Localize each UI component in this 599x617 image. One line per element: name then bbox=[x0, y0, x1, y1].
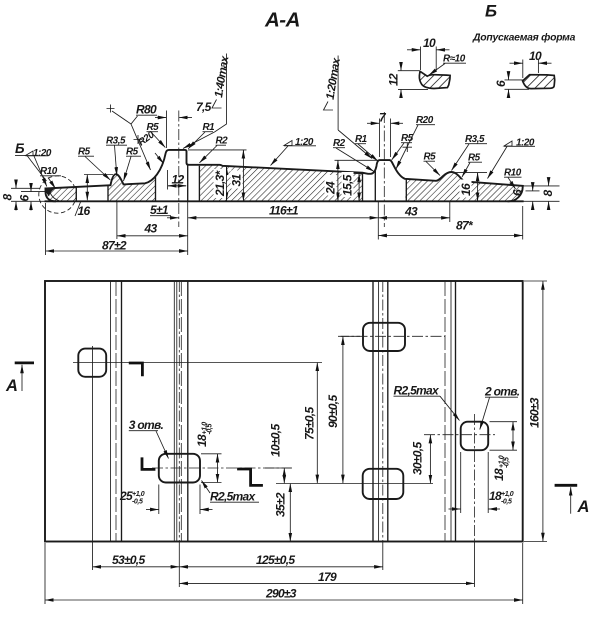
bottom dims: ext lines bbox=[116, 202, 118, 239]
groove edge line 5 bbox=[362, 173, 364, 202]
svg-text:+1,0: +1,0 bbox=[132, 491, 145, 498]
svg-text:+1,0: +1,0 bbox=[501, 491, 514, 498]
svg-text:5±1: 5±1 bbox=[150, 203, 169, 217]
svg-text:8: 8 bbox=[541, 190, 555, 197]
detail circle Б around left end bbox=[39, 176, 76, 213]
svg-text:3 отв.: 3 отв. bbox=[129, 418, 164, 432]
section mark A left bbox=[15, 361, 34, 364]
centerline hole column 2 bbox=[178, 281, 180, 542]
svg-text:А: А bbox=[5, 377, 18, 395]
svg-text:6: 6 bbox=[494, 80, 508, 87]
svg-text:-0,5: -0,5 bbox=[501, 499, 512, 506]
svg-text:90±0,5: 90±0,5 bbox=[326, 395, 340, 428]
right end edge bbox=[509, 186, 523, 201]
hole 4 mid-bottom bbox=[363, 469, 404, 499]
plate outline bbox=[45, 281, 523, 542]
hole 3 mid-top bbox=[363, 323, 405, 351]
dim 16 bump height bbox=[84, 174, 113, 176]
svg-text:R2,5max: R2,5max bbox=[210, 490, 256, 504]
svg-text:290±3: 290±3 bbox=[265, 587, 297, 601]
hatched block left outer bbox=[46, 187, 77, 201]
svg-text:10: 10 bbox=[423, 36, 436, 50]
groove edge line 2 bbox=[107, 185, 109, 201]
groove edge line 3b shoulder right face bbox=[187, 165, 189, 201]
svg-text:31: 31 bbox=[230, 174, 244, 187]
svg-text:125±0,5: 125±0,5 bbox=[256, 553, 295, 567]
groove edge line 6 bbox=[374, 171, 376, 201]
dim 24 bbox=[335, 159, 381, 161]
dim 8 right bbox=[524, 185, 560, 187]
svg-text:21,3*: 21,3* bbox=[213, 169, 227, 197]
section path corner 1 bbox=[129, 363, 143, 376]
svg-text:25: 25 bbox=[119, 489, 133, 503]
dim 16 right bbox=[452, 172, 487, 174]
rib line left 1 bbox=[110, 281, 112, 542]
svg-text:-0,5: -0,5 bbox=[132, 499, 143, 506]
section mark A right bbox=[555, 484, 578, 487]
svg-text:24: 24 bbox=[324, 181, 338, 195]
svg-text:Б: Б bbox=[15, 141, 25, 156]
hatched block left inner with bump bbox=[108, 174, 156, 201]
inner R10 arc left end (allowed form) bbox=[50, 191, 60, 201]
hole 3 row line bbox=[338, 335, 445, 337]
detail blob left bbox=[419, 71, 450, 88]
bottom ext lines bbox=[178, 542, 180, 588]
dim 18 left rotated bbox=[201, 453, 222, 455]
profile top outline bbox=[46, 150, 523, 189]
svg-text:Допускаемая форма: Допускаемая форма bbox=[472, 32, 576, 44]
groove edge line 3 bbox=[155, 176, 157, 201]
dim 90±0,5 bbox=[341, 335, 360, 337]
hole 5 centerlines bbox=[474, 414, 476, 542]
svg-text:16: 16 bbox=[78, 204, 91, 218]
hole 2 mid-left bbox=[159, 454, 200, 483]
svg-text:12: 12 bbox=[387, 73, 401, 86]
svg-text:179: 179 bbox=[318, 570, 337, 584]
svg-text:10±0,5: 10±0,5 bbox=[269, 424, 283, 457]
svg-text:А-А: А-А bbox=[264, 9, 300, 32]
base line bbox=[46, 200, 523, 202]
dim 10±0,5 bbox=[265, 467, 292, 469]
svg-text:160±3: 160±3 bbox=[528, 397, 542, 428]
dim 35±2 bbox=[289, 484, 291, 542]
svg-text:16: 16 bbox=[459, 183, 473, 196]
baseline ext left bbox=[11, 200, 45, 202]
hatched block right outer with bump bbox=[405, 172, 523, 201]
svg-text:1:20: 1:20 bbox=[33, 148, 52, 159]
svg-text:R2,5max: R2,5max bbox=[394, 384, 440, 398]
dark corner wedge R10 bbox=[45, 187, 57, 196]
svg-text:15,5: 15,5 bbox=[341, 174, 355, 196]
dim 10 (left blob) bbox=[420, 47, 422, 71]
svg-text:43: 43 bbox=[144, 222, 158, 236]
rib line right 3 bbox=[455, 281, 457, 542]
rib line right 2 bbox=[450, 281, 452, 542]
rib line mid-left 2 bbox=[176, 281, 178, 542]
detail blob right bbox=[523, 75, 555, 89]
svg-text:А: А bbox=[577, 498, 590, 516]
svg-text:1:20: 1:20 bbox=[516, 138, 535, 149]
svg-text:75±0,5: 75±0,5 bbox=[303, 407, 317, 440]
hole 1 left bbox=[78, 349, 106, 377]
svg-text:87*: 87* bbox=[456, 219, 474, 233]
svg-text:1:20: 1:20 bbox=[295, 137, 314, 148]
dim 8 left bbox=[11, 187, 40, 189]
dim 12 (left blob) bbox=[398, 70, 419, 72]
dim 6 left bbox=[21, 191, 46, 193]
dim 160±3 bbox=[524, 280, 547, 282]
hole 2 row line bbox=[152, 467, 292, 469]
svg-text:8: 8 bbox=[1, 194, 15, 201]
dim 31 bbox=[188, 149, 247, 151]
svg-text:87±2: 87±2 bbox=[102, 239, 127, 253]
groove edge line 1 bbox=[75, 187, 77, 201]
svg-text:R10: R10 bbox=[40, 166, 58, 177]
hole 5 right bbox=[461, 422, 489, 451]
rib line middle 2 bbox=[378, 281, 380, 542]
rib line right 1 bbox=[444, 281, 446, 542]
dim 18 right vertical bbox=[490, 421, 518, 423]
svg-text:35±2: 35±2 bbox=[274, 492, 288, 517]
left end edge bbox=[46, 189, 56, 202]
rib line mid-left 4 bbox=[187, 281, 189, 542]
rib line left 3 bbox=[121, 281, 123, 542]
svg-text:6: 6 bbox=[18, 195, 32, 202]
svg-text:18: 18 bbox=[195, 434, 209, 447]
hole 1 centerlines bbox=[92, 346, 94, 570]
groove edge line 4 bbox=[198, 166, 200, 202]
rib line mid-left 1 bbox=[173, 281, 175, 542]
svg-text:6: 6 bbox=[511, 189, 525, 196]
dim 75±0,5 bbox=[316, 363, 318, 484]
svg-text:-0,5: -0,5 bbox=[504, 457, 511, 468]
svg-text:12: 12 bbox=[172, 173, 185, 187]
dim 21,3* bbox=[226, 167, 228, 202]
rail edge dash-dot line bbox=[178, 111, 180, 228]
section path step Z bbox=[237, 469, 263, 485]
dim 10 (right blob) bbox=[522, 60, 524, 79]
svg-text:43: 43 bbox=[404, 205, 418, 219]
centerline hole column middle bbox=[382, 281, 384, 542]
svg-text:7,5: 7,5 bbox=[196, 100, 212, 114]
svg-text:30±0,5: 30±0,5 bbox=[411, 442, 425, 475]
svg-text:Б: Б bbox=[485, 2, 497, 21]
svg-text:18: 18 bbox=[492, 468, 506, 481]
groove edge line 8 bbox=[405, 179, 407, 201]
dim 15,5 bbox=[353, 173, 367, 175]
section path corner 2 bbox=[142, 457, 155, 469]
rib line middle 1 bbox=[372, 281, 374, 542]
svg-text:116±1: 116±1 bbox=[269, 204, 299, 218]
rib line left 2 bbox=[115, 281, 117, 542]
shoulder centerline right dash-dot bbox=[383, 112, 385, 227]
rib line middle 3 bbox=[387, 281, 389, 542]
hole 4 row line bbox=[276, 483, 433, 485]
hatched block rail seat bbox=[199, 165, 362, 201]
svg-text:10: 10 bbox=[529, 49, 542, 63]
dim 6 (right blob) bbox=[505, 79, 524, 81]
svg-text:-0,5: -0,5 bbox=[207, 424, 214, 435]
svg-text:53±0,5: 53±0,5 bbox=[112, 553, 145, 567]
svg-text:2 отв.: 2 отв. bbox=[484, 385, 520, 399]
dim 30±0,5 bbox=[429, 435, 431, 483]
rib line mid-left 3 bbox=[180, 281, 182, 542]
svg-text:R80: R80 bbox=[136, 103, 157, 117]
